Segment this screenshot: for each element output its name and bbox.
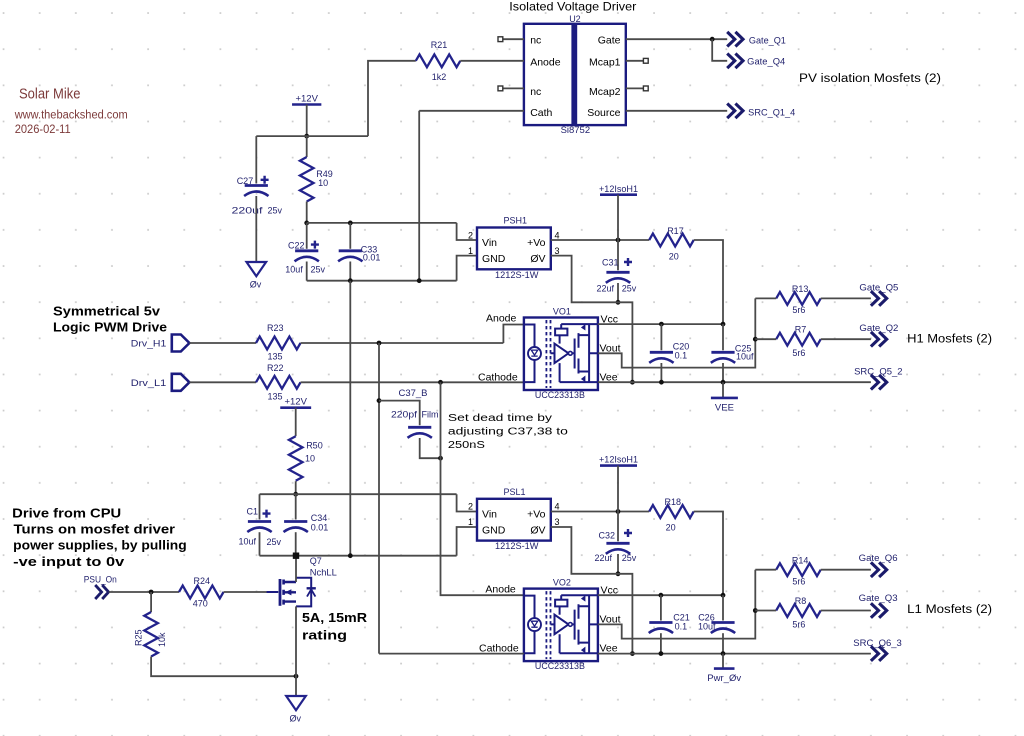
- wire to R7: [755, 338, 776, 340]
- svg-text:C37_B: C37_B: [399, 388, 428, 398]
- svg-text:135: 135: [268, 352, 283, 362]
- DC-DC converter PSL1: [468, 499, 560, 541]
- junction +12IsoH1: [616, 238, 621, 243]
- svg-text:R24: R24: [194, 576, 211, 586]
- ground 0v bottom: [286, 696, 306, 723]
- wire to VO2 Cathode: [379, 653, 524, 655]
- svg-text:ØV: ØV: [530, 253, 545, 265]
- svg-text:Gate_Q4: Gate_Q4: [747, 57, 785, 67]
- wire nc2 stub: [503, 87, 524, 89]
- port Drv_H1: [172, 335, 190, 352]
- port SRC_Q5_2 chevron: [871, 375, 887, 390]
- port Gate_Q4 chevron: [727, 54, 743, 69]
- svg-text:PSH1: PSH1: [504, 216, 528, 226]
- svg-text:22uf: 22uf: [595, 553, 613, 563]
- svg-text:GND: GND: [482, 525, 506, 537]
- svg-text:nc: nc: [530, 35, 541, 47]
- resistor R49: [300, 157, 314, 201]
- svg-text:+Vo: +Vo: [527, 237, 546, 249]
- svg-text:Gate: Gate: [598, 35, 621, 47]
- junction C20 bottom: [659, 380, 664, 385]
- svg-text:R22: R22: [267, 363, 284, 373]
- capacitor C33: [338, 251, 362, 261]
- svg-text:Film: Film: [422, 409, 439, 419]
- junction 0V/Vee2: [630, 651, 635, 656]
- resistor R18: [649, 505, 693, 518]
- wire C31 bottom lead: [617, 283, 619, 302]
- junction R49/C22/rail: [304, 221, 309, 226]
- svg-text:Symmetrical 5v: Symmetrical 5v: [53, 304, 161, 319]
- power +12V mid: [280, 397, 311, 408]
- Mcap2 terminal square: [643, 86, 648, 91]
- port Gate_Q6 chevron: [871, 562, 887, 577]
- wire +12V to R50: [295, 408, 297, 437]
- wire +12IsoH1 lower down: [617, 466, 619, 512]
- svg-text:220pf: 220pf: [391, 409, 418, 419]
- svg-text:Gate_Q1: Gate_Q1: [749, 35, 786, 45]
- junction R50/C34 rail: [293, 492, 298, 497]
- wire +12V node horizontal: [256, 135, 368, 137]
- svg-text:Pwr_Øv: Pwr_Øv: [707, 673, 741, 684]
- resistor R24: [179, 586, 223, 599]
- wire C34 bottom lead: [295, 532, 297, 556]
- wire U2 Gate to port: [626, 38, 727, 40]
- svg-text:C32: C32: [599, 530, 616, 540]
- resistor R23: [256, 337, 301, 350]
- DC-DC converter PSH1: [468, 228, 560, 270]
- svg-text:C22: C22: [288, 240, 305, 250]
- wire to R14: [755, 569, 776, 571]
- resistor R17: [649, 234, 693, 247]
- svg-text:20: 20: [669, 252, 679, 262]
- wire C20 top lead: [660, 324, 662, 350]
- svg-text:Vin: Vin: [482, 509, 497, 521]
- svg-text:R7: R7: [795, 325, 807, 335]
- svg-text:rating: rating: [302, 628, 347, 643]
- capacitor C32: [606, 529, 632, 554]
- wire R50 to rail: [295, 481, 297, 494]
- svg-text:Vin: Vin: [482, 237, 497, 249]
- svg-text:5r6: 5r6: [792, 305, 805, 315]
- svg-text:2: 2: [468, 502, 473, 512]
- port SRC_Q1_4 chevron: [727, 104, 743, 119]
- junction Gate_Q1/Gate_Q4: [710, 37, 715, 42]
- wire to R8: [755, 610, 776, 612]
- wire C25 top lead: [722, 324, 724, 350]
- svg-text:R17: R17: [667, 226, 684, 236]
- wire C1 top lead: [259, 494, 261, 519]
- junction +12V node: [304, 134, 309, 139]
- svg-text:power supplies, by pulling: power supplies, by pulling: [13, 538, 187, 553]
- wire Q7 source down: [295, 606, 297, 695]
- svg-text:10uf: 10uf: [239, 537, 257, 547]
- svg-text:R21: R21: [431, 40, 448, 50]
- svg-text:www.thebackshed.com: www.thebackshed.com: [14, 110, 128, 122]
- wire to R49: [306, 136, 308, 157]
- svg-text:0.01: 0.01: [311, 523, 329, 533]
- wire Vcc1 rail: [598, 323, 723, 325]
- svg-text:+12IsoH1: +12IsoH1: [599, 184, 638, 194]
- wire C21 top lead: [660, 595, 662, 620]
- svg-text:5r6: 5r6: [792, 619, 805, 629]
- svg-text:10uf: 10uf: [285, 265, 303, 275]
- resistor R50: [289, 436, 303, 481]
- wire R25 to source rail: [151, 657, 296, 677]
- junction C25 top: [721, 322, 726, 327]
- wire Drv_H1 to R23: [189, 342, 256, 344]
- resistor R13: [776, 292, 820, 305]
- svg-text:5r6: 5r6: [792, 348, 805, 358]
- resistor R22: [256, 376, 301, 389]
- wire C37 bottom lead: [420, 438, 441, 458]
- svg-text:5A, 15mR: 5A, 15mR: [302, 610, 368, 625]
- junction R25 tap: [149, 590, 154, 595]
- svg-text:Solar Mike: Solar Mike: [19, 86, 81, 103]
- resistor R14: [776, 563, 820, 576]
- wire C37 top lead: [379, 401, 420, 426]
- capacitor C25: [711, 352, 735, 363]
- svg-text:+12IsoH1: +12IsoH1: [599, 455, 638, 465]
- svg-text:3: 3: [555, 246, 560, 256]
- svg-text:NchLL: NchLL: [310, 568, 337, 578]
- svg-text:0.1: 0.1: [675, 351, 688, 361]
- svg-text:VO1: VO1: [553, 306, 571, 316]
- resistor R21: [416, 54, 461, 67]
- svg-text:C1: C1: [247, 507, 259, 517]
- wire to R25: [150, 592, 152, 612]
- svg-text:SRC_Q6_3: SRC_Q6_3: [853, 638, 902, 648]
- power +12IsoH1 bottom: [599, 455, 638, 466]
- nc terminal square top: [498, 37, 503, 42]
- wire 0v bottom subrail: [260, 555, 457, 557]
- wire +12V down: [306, 105, 308, 137]
- wire R22 to VO1 Cathode: [301, 381, 524, 383]
- wire Vcc2 rail: [598, 594, 723, 596]
- wire R7 to Gate_Q2: [821, 338, 871, 340]
- capacitor C26: [711, 623, 735, 634]
- svg-text:3: 3: [555, 517, 560, 527]
- port Drv_L1: [172, 374, 190, 391]
- junction C37 top: [377, 398, 382, 403]
- svg-text:Turns on mosfet driver: Turns on mosfet driver: [14, 521, 176, 536]
- wire R18 to Vcc2: [694, 512, 723, 596]
- resistor R7: [776, 333, 820, 346]
- wire +12 bottom subrail: [260, 493, 457, 495]
- svg-text:25v: 25v: [311, 265, 326, 275]
- U2 isolation bar: [571, 25, 577, 124]
- svg-text:R25: R25: [134, 629, 144, 646]
- wire Vout1 to gate resistors: [598, 298, 755, 367]
- svg-text:SRC_Q1_4: SRC_Q1_4: [748, 108, 795, 118]
- svg-text:Gate_Q3: Gate_Q3: [859, 593, 898, 603]
- wire C1 bottom lead: [259, 532, 261, 556]
- svg-text:Cath: Cath: [530, 107, 552, 119]
- wire C20 bottom lead: [660, 363, 662, 382]
- svg-text:2026-02-11: 2026-02-11: [15, 124, 71, 136]
- junction Cath rail: [417, 278, 422, 283]
- wire C34 top lead: [295, 494, 297, 519]
- junction C25 bottom: [721, 380, 726, 385]
- wire Drv_H1 vertical to VO2 cathode: [378, 343, 380, 654]
- svg-text:VEE: VEE: [715, 403, 734, 414]
- wire C21 bottom lead: [660, 633, 662, 653]
- IC U2 Si8752 body: [524, 24, 626, 125]
- wire rail to PSL1 GND: [457, 527, 477, 556]
- resistor R25: [144, 612, 158, 656]
- svg-text:Anode: Anode: [486, 312, 517, 324]
- wire Mcap2 stub: [626, 87, 644, 89]
- transistor Q7 NchLL: [267, 578, 316, 607]
- svg-text:22uf: 22uf: [597, 284, 615, 294]
- wire C31 top lead: [617, 240, 619, 270]
- svg-text:Q7: Q7: [310, 556, 322, 566]
- svg-text:L1 Mosfets (2): L1 Mosfets (2): [907, 604, 992, 616]
- port Gate_Q2 chevron: [871, 332, 887, 347]
- junction C26 bottom: [721, 651, 726, 656]
- capacitor C21: [649, 623, 673, 634]
- junction C31 bottom: [616, 300, 621, 305]
- wire Vee2 / SRC_Q6_3 rail: [598, 653, 871, 655]
- svg-text:R8: R8: [795, 596, 807, 606]
- wire R21 to U2 Anode: [460, 60, 524, 62]
- wire Cath down to 0v rail: [418, 111, 420, 281]
- junction Drv_L1 branch: [438, 380, 443, 385]
- junction 0V/Vee1: [630, 380, 635, 385]
- svg-text:0.1: 0.1: [675, 622, 688, 632]
- junction C26 top: [721, 593, 726, 598]
- capacitor C27: [244, 176, 269, 196]
- svg-text:H1 Mosfets (2): H1 Mosfets (2): [907, 333, 992, 345]
- svg-text:VO2: VO2: [553, 577, 571, 587]
- capacitor C31: [606, 258, 632, 283]
- junction C32 bottom: [616, 571, 621, 576]
- svg-text:PSL1: PSL1: [504, 487, 526, 497]
- junction C21 bottom: [659, 651, 664, 656]
- wire Drv_L1 to R22: [189, 381, 256, 383]
- junction 0v rail down: [348, 553, 353, 558]
- wire R13 to Gate_Q5: [821, 297, 871, 299]
- svg-text:4: 4: [555, 230, 560, 240]
- port Gate_Q1 chevron: [727, 32, 743, 47]
- svg-text:Gate_Q2: Gate_Q2: [859, 323, 898, 333]
- svg-text:SRC_Q5_2: SRC_Q5_2: [854, 366, 903, 376]
- svg-text:1212S-1W: 1212S-1W: [495, 270, 539, 280]
- svg-text:C27: C27: [237, 176, 254, 186]
- svg-text:1: 1: [468, 517, 473, 527]
- svg-text:adjusting C37,38 to: adjusting C37,38 to: [448, 426, 569, 437]
- svg-text:20: 20: [666, 523, 676, 533]
- svg-text:U2: U2: [569, 14, 581, 24]
- svg-text:1212S-1W: 1212S-1W: [495, 541, 539, 551]
- svg-text:Drv_L1: Drv_L1: [131, 378, 167, 388]
- capacitor C1: [247, 510, 271, 532]
- wire rail to PSL1 Vin: [457, 494, 477, 511]
- svg-text:470: 470: [193, 599, 208, 609]
- svg-text:1k2: 1k2: [432, 72, 447, 82]
- wire C22 top lead: [306, 223, 308, 249]
- wire C27 to ground: [255, 196, 257, 262]
- wire C33 bottom lead: [349, 262, 351, 281]
- svg-text:+12V: +12V: [284, 397, 307, 408]
- wire +12 subrail: [307, 222, 457, 224]
- svg-text:R18: R18: [665, 497, 682, 507]
- svg-text:Set dead time by: Set dead time by: [448, 413, 552, 424]
- capacitor C37_B: [408, 427, 432, 438]
- wire R23 to VO1 Anode: [301, 342, 504, 344]
- wire R49 to +12 rail: [306, 202, 308, 223]
- svg-text:ØV: ØV: [530, 525, 545, 537]
- wire C33 top lead: [349, 223, 351, 249]
- svg-text:Gate_Q6: Gate_Q6: [859, 553, 898, 563]
- wire to R13: [755, 297, 776, 299]
- wire to C27 top: [255, 136, 257, 183]
- svg-text:4: 4: [555, 502, 560, 512]
- wire PSL1 0V to Vee2: [551, 527, 633, 654]
- wire Q7 drain: [295, 556, 297, 582]
- svg-text:R50: R50: [306, 441, 323, 451]
- svg-text:R14: R14: [792, 555, 809, 565]
- wire Drv_L1 vertical to VO2 Anode: [441, 382, 524, 595]
- svg-text:135: 135: [268, 392, 283, 402]
- svg-text:25v: 25v: [268, 206, 283, 216]
- junction square Q7 drain node: [293, 553, 299, 559]
- junction R7 tap: [753, 337, 758, 342]
- wire 0v rail down to bottom: [349, 281, 351, 556]
- svg-text:25v: 25v: [267, 537, 282, 547]
- wire C32 bottom lead: [617, 554, 619, 574]
- svg-text:UCC23313B: UCC23313B: [535, 390, 585, 400]
- svg-text:+12V: +12V: [295, 94, 318, 105]
- capacitor C20: [649, 352, 673, 363]
- power +12IsoH1 top: [599, 184, 638, 195]
- svg-text:1: 1: [468, 246, 473, 256]
- svg-text:PV isolation Mosfets (2): PV isolation Mosfets (2): [799, 73, 941, 85]
- svg-text:10k: 10k: [157, 632, 167, 647]
- wire PSL1 +Vo: [551, 511, 649, 513]
- wire branch to Gate_Q4: [712, 39, 727, 61]
- wire rail to PSH1 Vin: [457, 223, 477, 240]
- svg-text:PSU_On: PSU_On: [84, 575, 117, 585]
- wire Cath horizontal: [419, 110, 524, 112]
- wire C32 top lead: [617, 512, 619, 542]
- capacitor C34: [284, 522, 308, 533]
- svg-text:Source: Source: [587, 107, 620, 119]
- optocoupler VO1 UCC23313B: [524, 318, 598, 391]
- optocoupler VO2 UCC23313B: [524, 589, 598, 662]
- svg-text:GND: GND: [482, 253, 506, 265]
- svg-text:Logic PWM Drive: Logic PWM Drive: [53, 320, 167, 335]
- svg-text:Mcap2: Mcap2: [589, 86, 621, 98]
- wire rail to PSH1 GND: [457, 256, 477, 281]
- wire R14 to Gate_Q6: [821, 569, 871, 571]
- wire to Pwr_0v bar: [722, 654, 724, 669]
- svg-text:250nS: 250nS: [448, 440, 485, 451]
- wire nc1 stub: [503, 38, 524, 40]
- svg-text:5r6: 5r6: [792, 576, 805, 586]
- port Gate_Q5 chevron: [871, 291, 887, 306]
- wire Vee1 / SRC_Q5_2 rail: [598, 381, 871, 383]
- svg-text:Isolated Voltage Driver: Isolated Voltage Driver: [509, 0, 636, 14]
- svg-text:Mcap1: Mcap1: [589, 56, 621, 68]
- wire PSU_On to R24: [109, 591, 179, 593]
- wire C26 top lead: [722, 595, 724, 620]
- wire PSH1 0V to Vee1: [551, 256, 633, 383]
- port Gate_Q3 chevron: [871, 603, 887, 618]
- Mcap1 terminal square: [643, 58, 648, 63]
- svg-text:UCC23313B: UCC23313B: [535, 661, 585, 671]
- junction +12IsoH1 lower: [616, 509, 621, 514]
- svg-text:Øv: Øv: [250, 279, 262, 289]
- svg-text:25v: 25v: [622, 284, 637, 294]
- svg-text:Drive from CPU: Drive from CPU: [12, 505, 121, 520]
- capacitor C22: [295, 241, 319, 262]
- junction R8 tap: [753, 608, 758, 613]
- svg-text:10: 10: [305, 453, 315, 463]
- svg-text:Cathode: Cathode: [478, 371, 518, 383]
- svg-text:-ve input to 0v: -ve input to 0v: [13, 554, 125, 569]
- junction Drv_H1 branch: [377, 341, 382, 346]
- svg-text:2: 2: [468, 230, 473, 240]
- wire C26 bottom lead: [722, 633, 724, 653]
- wire R17 to Vcc1: [694, 240, 723, 324]
- wire U2 Source to port: [626, 110, 727, 112]
- port SRC_Q6_3 chevron: [871, 646, 887, 661]
- svg-text:Gate_Q5: Gate_Q5: [859, 282, 898, 292]
- ground 0v C27: [247, 262, 267, 289]
- svg-text:Anode: Anode: [530, 56, 561, 68]
- svg-text:R23: R23: [267, 323, 284, 333]
- junction Q7 source: [294, 674, 299, 679]
- port PSU_On chevron: [95, 585, 108, 599]
- wire Vout2 to gate resistors: [598, 570, 755, 639]
- power Pwr_0v: [707, 669, 741, 685]
- resistor R8: [776, 604, 820, 617]
- wire Anode jog VO1: [503, 325, 524, 344]
- wire +12V to R21: [368, 61, 416, 136]
- svg-text:R13: R13: [792, 284, 809, 294]
- power VEE: [711, 398, 738, 414]
- nc terminal square bottom: [498, 86, 503, 91]
- junction C33 bottom: [348, 278, 353, 283]
- svg-text:C31: C31: [602, 258, 619, 268]
- wire C25 bottom lead: [722, 363, 724, 382]
- wire C22 bottom lead: [306, 262, 308, 281]
- junction C37 bottom: [438, 456, 443, 461]
- junction C21 top: [659, 593, 664, 598]
- svg-text:25v: 25v: [622, 553, 637, 563]
- svg-text:10uf: 10uf: [736, 352, 754, 362]
- svg-text:Si8752: Si8752: [561, 125, 591, 135]
- wire R8 to Gate_Q3: [821, 610, 871, 612]
- svg-text:220uf: 220uf: [232, 206, 264, 216]
- wire 0v subrail: [307, 280, 457, 282]
- svg-text:Anode: Anode: [485, 584, 516, 596]
- svg-text:0.01: 0.01: [363, 253, 381, 263]
- svg-text:C34: C34: [311, 513, 328, 523]
- wire R24 to Q7 gate: [224, 591, 279, 593]
- junction C20 top: [659, 322, 664, 327]
- svg-text:10: 10: [318, 178, 328, 188]
- wire +12IsoH1 down: [617, 195, 619, 240]
- wire to VEE bar: [722, 382, 724, 398]
- svg-text:+Vo: +Vo: [527, 509, 546, 521]
- svg-text:Øv: Øv: [290, 713, 302, 723]
- wire PSH1 +Vo: [551, 239, 649, 241]
- svg-text:10uf: 10uf: [698, 622, 716, 632]
- junction C33 top: [348, 221, 353, 226]
- svg-text:nc: nc: [530, 86, 541, 98]
- power +12V top: [292, 94, 321, 105]
